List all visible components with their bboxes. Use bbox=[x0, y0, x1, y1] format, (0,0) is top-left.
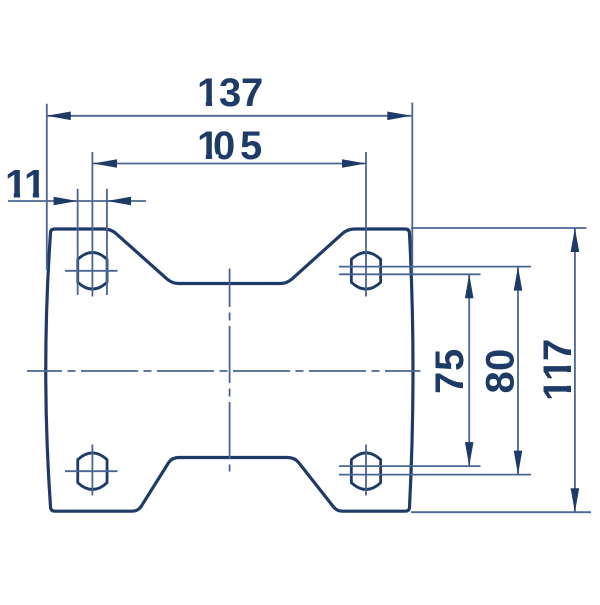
svg-text:8: 8 bbox=[479, 371, 523, 393]
dim text 105 bbox=[197, 124, 262, 168]
75 bbox=[465, 274, 474, 298]
arrows bbox=[47, 112, 579, 513]
dim text 80 bbox=[479, 349, 523, 394]
hole BL centerlines bbox=[91, 445, 93, 496]
hole BL bbox=[78, 453, 107, 490]
svg-text:1: 1 bbox=[24, 163, 46, 207]
svg-text:7: 7 bbox=[428, 372, 472, 394]
hole BR bbox=[351, 453, 380, 490]
117 bbox=[571, 228, 580, 252]
dim 11: line + extensions bbox=[8, 200, 146, 202]
svg-text:5: 5 bbox=[240, 124, 262, 168]
hole TL horizontal centerline bbox=[65, 270, 118, 272]
80 bbox=[514, 267, 523, 291]
svg-text:5: 5 bbox=[428, 349, 472, 371]
dim 75: extensions + line bbox=[339, 273, 481, 275]
dim text 11 bbox=[5, 163, 46, 207]
svg-text:7: 7 bbox=[536, 339, 580, 361]
dim 137: line + extensions bbox=[47, 115, 412, 117]
svg-text:3: 3 bbox=[219, 71, 241, 115]
dim 117: extensions + line bbox=[411, 227, 587, 229]
dim 80: extensions + line bbox=[339, 266, 531, 268]
svg-text:1: 1 bbox=[536, 379, 580, 401]
dim 105: line + extensions/hole centerlines bbox=[93, 163, 366, 165]
plate outline bbox=[46, 229, 413, 511]
svg-text:7: 7 bbox=[241, 71, 263, 115]
11 bbox=[54, 197, 78, 206]
svg-text:1: 1 bbox=[536, 359, 580, 381]
dim text 137 bbox=[197, 71, 263, 115]
svg-text:0: 0 bbox=[479, 349, 523, 371]
center lines dash-dot bbox=[27, 269, 421, 472]
thin lines bbox=[8, 103, 591, 513]
137 bbox=[47, 112, 71, 121]
hole TL bbox=[78, 253, 107, 290]
105 bbox=[93, 159, 117, 168]
hole TR bbox=[351, 253, 380, 290]
svg-text:0: 0 bbox=[213, 124, 235, 168]
hole BR vertical centerline bbox=[365, 445, 367, 496]
svg-text:1: 1 bbox=[197, 71, 219, 115]
dim text 117 bbox=[536, 339, 580, 401]
dim text 75 bbox=[428, 349, 472, 394]
